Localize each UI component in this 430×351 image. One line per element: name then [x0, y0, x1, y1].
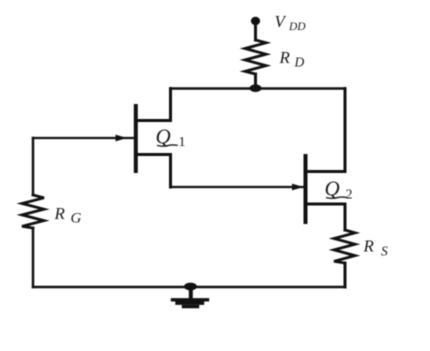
wire — [32, 228, 35, 287]
ground bar 3 — [184, 305, 198, 308]
svg-text:2: 2 — [346, 188, 353, 203]
gate arrowhead of Q1 — [116, 135, 128, 142]
svg-text:DD: DD — [288, 21, 306, 33]
svg-text:G: G — [71, 211, 82, 227]
node: junction dot on top rail — [250, 84, 262, 92]
wire: left vertical (RG branch) — [32, 138, 35, 195]
wire: Q2 source lead — [306, 204, 345, 230]
VDD terminal dot — [251, 17, 260, 25]
transistor Q2 gate bar — [304, 156, 308, 222]
ground junction dot — [184, 283, 197, 291]
svg-text:R: R — [54, 204, 66, 223]
wire: top rail — [171, 87, 346, 89]
wire: bottom rail — [33, 286, 345, 288]
svg-text:1: 1 — [179, 135, 186, 150]
resistor RD — [245, 40, 266, 74]
wire: RS to bottom rail — [344, 263, 347, 287]
transistor Q1 gate bar — [134, 106, 138, 171]
svg-text:D: D — [294, 55, 305, 70]
svg-text:S: S — [381, 244, 388, 259]
wire: Q1 drain lead — [136, 89, 171, 121]
wire: VDD stem — [254, 21, 257, 40]
svg-text:R: R — [279, 48, 291, 67]
gate arrowhead of Q2 — [292, 184, 304, 191]
resistor RS — [334, 230, 355, 263]
ground bar 2 — [177, 302, 203, 305]
wire: Q2 drain lead — [306, 89, 345, 172]
wire: Q1 source to Q2 gate — [171, 186, 305, 188]
resistor RG — [22, 195, 44, 228]
svg-text:R: R — [363, 237, 375, 256]
ground bar 1 — [173, 298, 208, 301]
wire: RD to top rail — [254, 74, 257, 89]
wire: top-left gate feed to Q1 — [33, 137, 134, 139]
ground stem — [189, 287, 193, 299]
wire: Q1 source lead — [136, 155, 171, 188]
svg-text:V: V — [275, 12, 288, 31]
